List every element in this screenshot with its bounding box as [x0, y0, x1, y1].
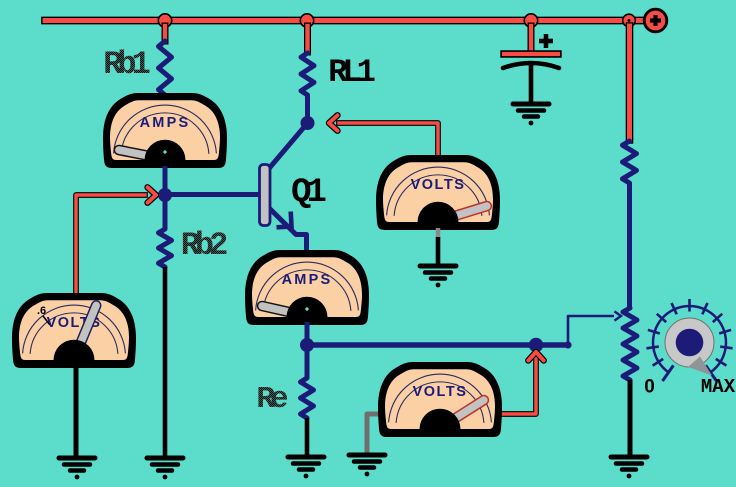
arrowhead: probe into base node: [148, 187, 157, 202]
wire: Rb1 to AMPS meter M1: [163, 93, 168, 100]
wire: base node to Rb2: [163, 199, 168, 229]
wire: rail to right resistor (red): [626, 26, 634, 140]
meter M4 VOLTS (emitter): [378, 362, 502, 437]
capacitor C1 (+ plate): [504, 50, 558, 57]
node: wiper tap on emitter bus: [564, 341, 571, 348]
wire: Re to ground: [305, 418, 310, 457]
resistor Re: [301, 378, 314, 418]
node: rail junction at capacitor: [524, 14, 537, 27]
wire: rail to capacitor: [528, 26, 535, 50]
svg-text:Rb2: Rb2: [181, 227, 227, 264]
resistor (right fixed): [623, 141, 637, 183]
wire: middle VOLTS probe to collector (red): [339, 123, 438, 155]
potentiometer knob: [644, 299, 735, 398]
arrowhead: probe into collector node: [329, 115, 338, 130]
ground (M5): [59, 458, 95, 479]
ground (Rb2): [147, 458, 183, 479]
wire: +V top rail: [45, 17, 650, 25]
node: probe junction on emitter bus: [529, 338, 543, 352]
wire: rail to RL1: [304, 26, 311, 52]
resistor RL1: [301, 53, 314, 95]
svg-text:MAX: MAX: [701, 376, 736, 398]
wire: M4 to ground (gray): [367, 414, 380, 454]
svg-text:.6: .6: [37, 305, 46, 317]
resistor Rb1: [159, 41, 172, 95]
resistor Rb2: [159, 229, 172, 267]
wire: M5 to ground: [74, 366, 79, 457]
wire: base node to Q1 base: [168, 192, 260, 197]
svg-text:VOLTS: VOLTS: [413, 384, 468, 400]
svg-text:Rb1: Rb1: [103, 46, 149, 83]
svg-text:RL1: RL1: [328, 54, 374, 91]
ground (Re): [288, 457, 324, 478]
ground (capacitor): [513, 104, 549, 125]
wire: Rb2 to ground: [163, 267, 168, 457]
wire: rail to Rb1: [162, 26, 169, 41]
wire: M3 to ground (gray stub): [436, 228, 441, 238]
meter M3 VOLTS (collector): [376, 155, 500, 230]
ground (M3): [420, 266, 456, 287]
arrowhead: wiper: [614, 311, 621, 320]
node: rail junction at RL1: [300, 14, 313, 27]
node: rail junction at Rb1: [158, 14, 171, 27]
svg-text:Q1: Q1: [291, 174, 325, 212]
wire: tap to potentiometer wiper: [568, 316, 614, 345]
wire: M4 probe to emitter bus (red): [501, 357, 536, 414]
capacitor C1 (curved plate): [503, 63, 559, 68]
arrowhead: probe into emitter bus: [528, 352, 543, 361]
ground (M4): [349, 455, 385, 476]
node: emitter junction: [300, 338, 314, 352]
wire: to potentiometer: [627, 183, 632, 308]
node: base junction: [158, 188, 172, 202]
wire: left VOLTS probe to base (red): [76, 195, 145, 293]
svg-text:AMPS: AMPS: [282, 272, 333, 288]
node: rail junction at right branch: [623, 14, 636, 27]
wire: RL1 to collector node: [305, 95, 310, 123]
wire: potentiometer to ground: [628, 380, 633, 457]
ground (potentiometer): [611, 457, 647, 478]
svg-text:Re: Re: [256, 382, 288, 417]
potentiometer element: [623, 308, 637, 380]
label: capacitor +: [539, 39, 553, 44]
wire: capacitor to ground: [529, 64, 534, 104]
wire: M2 to emitter node: [305, 322, 310, 345]
meter M1 AMPS (base current): [103, 93, 227, 168]
transistor Q1: [266, 126, 305, 172]
wire: M1 to base node: [163, 166, 168, 196]
battery + terminal: [644, 9, 667, 32]
meter M5 VOLTS (base): [12, 293, 136, 368]
node: collector junction: [301, 116, 315, 130]
svg-text:VOLTS: VOLTS: [411, 177, 466, 193]
svg-text:0: 0: [644, 377, 655, 398]
wire: emitter node to Re: [305, 350, 310, 378]
meter M2 AMPS (emitter current): [245, 250, 369, 325]
svg-text:AMPS: AMPS: [140, 115, 191, 131]
wire: emitter node bus: [307, 342, 568, 347]
